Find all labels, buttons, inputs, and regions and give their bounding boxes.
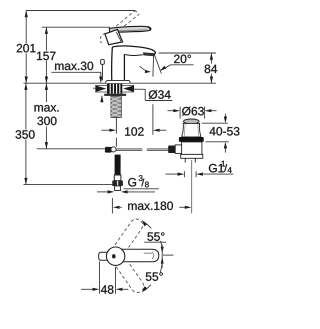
label max30 — [55, 62, 93, 70]
label 201 — [16, 43, 37, 53]
dimension G38 arrows — [97, 191, 108, 193]
dimension 157 line — [45, 27, 47, 83]
pop-up rod below deck — [115, 118, 117, 147]
arc arrow stream angle — [140, 66, 148, 71]
dashed raised lever line 2 — [115, 15, 138, 33]
plan lever solid — [119, 249, 159, 262]
label 55deg upper — [147, 232, 164, 240]
dimension 48 left arrow — [81, 288, 93, 290]
dimension max180 right arrow — [179, 206, 185, 208]
faucet body column — [112, 47, 125, 83]
label 102 — [125, 127, 144, 135]
hose tailpiece — [115, 186, 121, 191]
dimension 48 extension lines — [99, 262, 101, 294]
plan spout stub — [99, 252, 107, 260]
drain tailpipe stub — [185, 158, 195, 162]
plan body circle — [106, 247, 124, 265]
label O63 — [182, 107, 204, 116]
label max300 — [33, 102, 61, 127]
flexible supply hose — [115, 155, 121, 176]
label O34 underline — [145, 100, 172, 102]
angle arc lower end arrow — [142, 286, 147, 292]
drain centerline — [191, 160, 193, 213]
wire deck counter top line — [24, 82, 217, 84]
threaded shank lower — [111, 96, 121, 118]
spout top edge — [112, 46, 155, 54]
plan cartridge dot — [112, 254, 116, 258]
dashed raised lever tip cap — [134, 11, 138, 15]
locknut — [104, 94, 126, 96]
label 84 — [204, 64, 217, 74]
drain coupling ring — [181, 154, 203, 158]
dimension 350 line — [25, 83, 27, 184]
label O34 — [149, 90, 171, 99]
handle lever bar — [0, 0, 1, 1]
label 20deg — [174, 55, 191, 63]
leader max30 — [51, 72, 100, 77]
dimension 40-53 arrows — [224, 114, 226, 117]
drain side port nut — [168, 146, 175, 154]
label max180 — [128, 202, 173, 210]
angle arc upper end arrow — [142, 220, 147, 226]
dimension O63 arrows — [168, 110, 174, 112]
dimension 48 right arrow — [116, 288, 123, 291]
pull rod — [101, 64, 103, 80]
ball joint clamp — [105, 147, 112, 153]
plan dashed lever up — [112, 217, 145, 257]
drain lower body — [182, 142, 202, 155]
wire hose end reference line — [37, 148, 105, 150]
label G38 underline — [124, 188, 159, 190]
node 102 extension line — [152, 104, 154, 135]
wire handle rest reference line — [42, 26, 110, 28]
label 55deg lower — [146, 272, 163, 280]
spout underside — [124, 54, 142, 55]
threaded shank in counter — [107, 84, 122, 94]
plan dashed lever down — [113, 255, 146, 295]
angle arc lower — [145, 263, 163, 291]
angle arc vertical line — [161, 245, 163, 268]
ball joint circle — [111, 147, 116, 152]
pull rod knob — [101, 60, 105, 65]
hose hex nut — [112, 181, 123, 186]
angle arc upper — [144, 222, 163, 250]
water stream vertical line — [152, 55, 155, 77]
dimension G1-14 arrows — [183, 171, 185, 177]
dimension max300 line — [45, 83, 47, 149]
dimension O63 extension ticks — [179, 107, 181, 119]
dimension max180 left boundary — [111, 198, 113, 213]
dimension O34 left arrow — [93, 87, 96, 89]
dimension 84 line — [210, 53, 212, 83]
drain side port connector — [175, 145, 181, 154]
dimension 201 line — [25, 11, 27, 84]
wire spout outlet reference line — [159, 52, 217, 54]
label 55deg upper underline — [144, 241, 166, 243]
dimension O34 right arrow — [123, 85, 134, 92]
dashed raised handle base outline — [100, 33, 105, 43]
label 40-53 — [210, 127, 240, 135]
label G38 — [128, 178, 136, 186]
angle arc tip arrows — [161, 247, 164, 253]
angle axis tick — [163, 254, 174, 256]
drain upper cup — [182, 123, 201, 137]
label 157 — [36, 51, 57, 61]
dashed raised lever line 1 — [112, 11, 134, 30]
wire bottom baseline — [24, 184, 113, 186]
linkage rod to drain — [116, 149, 174, 150]
label G1-14 — [209, 164, 224, 172]
dimension 102 left arrow — [102, 129, 110, 131]
drain pop-up cap — [184, 119, 200, 124]
drain o-ring seal — [179, 137, 204, 142]
wire top reference line raised handle — [26, 10, 135, 12]
handle base — [105, 29, 123, 44]
label 48 — [101, 284, 114, 294]
aerator — [143, 52, 155, 56]
hose collar — [114, 175, 121, 181]
dimension 102 right arrow — [153, 129, 160, 132]
leader 20deg — [163, 65, 194, 70]
water stream angled line — [154, 54, 161, 73]
dimension 40-53 extension lines — [202, 122, 228, 124]
escutcheon base plate — [106, 80, 130, 83]
label 350 — [15, 129, 36, 139]
counter section lines — [95, 84, 134, 86]
